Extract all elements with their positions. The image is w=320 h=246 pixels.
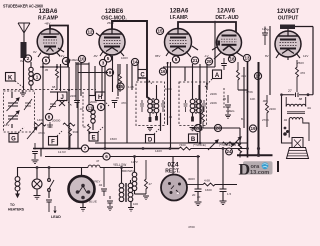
svg-text:20: 20 [192,193,196,197]
pin 14 [131,58,138,65]
capacitor C 04 buffer [98,168,107,197]
svg-text:250V: 250V [107,21,114,25]
svg-text:12V6GT: 12V6GT [277,9,300,15]
ground IF T1 [147,128,153,131]
svg-text:-1V: -1V [204,54,209,58]
svg-text:IK: IK [83,125,86,129]
svg-text:1.5: 1.5 [227,192,232,196]
dial lamp PL [32,168,42,200]
pin 19 [249,125,256,132]
wire vertical x207 [206,64,208,90]
svg-text:12.6V: 12.6V [58,150,66,154]
label V1 12BA6 R.F.AMP [38,9,59,22]
svg-text:12BE6: 12BE6 [105,9,124,15]
wire y128 det [192,127,240,129]
svg-text:D: D [239,162,251,179]
pin 9 [97,103,104,110]
junction [104,71,106,73]
junction [104,147,107,150]
svg-text:220K: 220K [210,101,217,105]
svg-text:456KC: 456KC [138,76,148,80]
svg-text:14: 14 [132,60,138,65]
svg-text:95V: 95V [155,54,160,58]
svg-text:.05: .05 [222,97,227,101]
svg-text:12V: 12V [303,54,308,58]
trimmer C2 [24,99,32,110]
watermark logo [239,161,273,178]
svg-text:-48V: -48V [44,22,50,26]
svg-text:10: 10 [79,57,85,62]
antenna loopstick coil [21,42,27,90]
capacitor C x114.5 [112,101,118,109]
svg-text:100V: 100V [121,56,128,60]
svg-text:2200: 2200 [70,94,77,98]
resistor R x203 det load [202,106,205,128]
svg-text:.02: .02 [168,115,173,119]
tube V3 12BA6 envelope [165,29,192,56]
label V4 12AV6 DET-AUD [215,9,239,22]
tube V5 pin stubs [276,53,300,60]
wire vertical x127 [126,64,128,143]
svg-text:13.com: 13.com [250,170,269,176]
antenna [18,23,30,42]
junction [222,147,225,150]
wire V2 plate to IF1 [112,21,150,99]
wire vertical x120 [119,64,121,74]
svg-text:8: 8 [48,115,51,120]
wire vertical x118 [117,64,119,96]
svg-text:12AV6: 12AV6 [217,9,236,15]
resistor R x280 [266,95,277,127]
capacitor and ground x228 [222,95,231,118]
oscillator trimmer caps [47,100,57,128]
svg-text:H: H [98,95,102,101]
resistor R 470 x297 [296,60,306,92]
capacitor C 34 [107,196,113,211]
wire vertical x69 [68,67,70,149]
switch SW on-off [48,168,54,199]
wire 0Z4 output y183 [187,184,203,186]
resistor R 7400 on bus [179,143,248,150]
wire vertical x270 [269,26,271,95]
test point box H [96,92,110,106]
resistor R y124.5 [63,123,75,126]
svg-text:40: 40 [197,195,201,199]
svg-text:470K: 470K [38,131,45,135]
volume pot det arrow [208,140,234,150]
svg-text:.01: .01 [79,107,84,111]
svg-text:15: 15 [118,84,124,89]
variable capacitor C1A [7,98,20,111]
junction [68,147,71,150]
wire vertical x81 [80,63,82,97]
junction X mark [59,100,65,106]
test point box J [58,92,73,106]
resistor R x57 [56,69,59,90]
junction [36,166,39,169]
svg-text:12V: 12V [59,54,64,58]
pin 5 V2 [104,55,111,62]
svg-text:1MEG: 1MEG [226,109,235,113]
svg-text:10K: 10K [250,97,255,101]
svg-text:20000: 20000 [52,119,61,123]
wire vertical x60 to J [60,64,62,91]
pin 15b [117,83,124,90]
capacitor C y151 x35 with ground [32,143,39,164]
IF T1 trim caps [140,100,165,112]
svg-text:TO: TO [10,203,15,207]
resistor R x120 [119,74,122,92]
volume control R-VOL [27,119,61,140]
svg-text:2: 2 [27,56,30,61]
IF T2 primary coil [190,64,195,122]
svg-text:19: 19 [250,126,256,131]
svg-text:E: E [91,136,95,142]
IF T2 trim caps [184,100,207,112]
wire transformer feed [282,95,293,143]
wire vertical x76 [75,62,77,100]
junction [284,127,287,130]
tube V4 pin stubs [212,47,243,59]
svg-text:1: 1 [36,75,39,80]
svg-text:20: 20 [206,59,212,64]
power transformer T-PWR [119,168,133,203]
coil L heater choke bump [88,165,100,167]
dashed gang link 2 [82,92,84,128]
wire horizontal y67 left [40,66,69,68]
svg-text:.05: .05 [232,143,237,147]
svg-text:YELLOW: YELLOW [113,163,126,167]
pin 20 [205,58,212,65]
label 0Z4 RECT [165,162,180,175]
wire 0Z4 anode feed [172,157,174,176]
svg-text:100K: 100K [165,87,172,91]
wire vertical x200 [199,64,201,143]
svg-text:390: 390 [73,130,78,134]
junction [169,147,172,150]
svg-text:16: 16 [160,69,166,74]
wire vertical x43 [42,63,44,149]
svg-text:0V: 0V [33,50,37,54]
svg-text:-18V: -18V [3,123,9,127]
svg-text:220K: 220K [210,92,217,96]
dashed gang line [3,89,96,91]
pin 12 [86,28,93,35]
dashed AVC line x224 [223,88,225,108]
test point box A [204,70,222,88]
svg-text:250V: 250V [297,61,304,65]
test point box G [9,127,24,143]
pin 22 [194,124,201,131]
svg-text:F: F [51,140,55,146]
svg-text:13: 13 [244,56,250,61]
pin 1 [33,73,40,80]
choke L filter [132,157,137,195]
wire gang to ground [11,92,13,128]
test point box C [138,70,152,85]
wire vertical x170 [170,62,172,149]
pin 21 [191,57,198,64]
svg-text:.88: .88 [298,97,303,101]
wire horizontal y95.5 H [89,95,95,97]
svg-text:12BA6: 12BA6 [39,9,58,15]
test point box D [146,128,161,144]
svg-text:LEAD: LEAD [51,215,61,219]
capacitor C x77 [74,101,80,109]
test point box K [6,73,25,89]
svg-text:12BA6: 12BA6 [170,9,189,15]
wire vertical x57 [56,64,58,69]
capacitor C x224 [221,58,227,70]
svg-text:-8V: -8V [93,54,98,58]
svg-text:I.F.AMP.: I.F.AMP. [170,15,189,21]
resistor R 1600 [203,179,237,193]
svg-text:1.05: 1.05 [128,85,134,89]
tube V2 pin stubs [96,33,124,58]
tube V3 pin stubs [166,46,198,58]
wire right edge vertical [312,27,314,95]
svg-text:47: 47 [96,159,100,163]
ground transformer [128,202,134,211]
pin 13 [243,54,250,61]
coil heater dropper TO HEATERS [15,168,20,198]
svg-text:27: 27 [288,89,292,93]
label plate cap V5 [280,25,313,32]
svg-text:J: J [61,95,64,101]
svg-text:9: 9 [109,70,112,75]
svg-text:A: A [215,73,220,79]
svg-text:270K: 270K [262,118,269,122]
pin 10 [78,55,85,62]
wire horizontal y90 right [238,89,248,91]
svg-text:DET.-AUD: DET.-AUD [215,15,239,21]
pin 15 [156,27,163,34]
svg-text:.02: .02 [283,118,288,122]
wire vertical x244 [243,67,245,128]
svg-text:3: 3 [102,61,105,66]
svg-text:470K: 470K [246,90,253,94]
IF T2 secondary coil [197,85,202,124]
variable capacitor C1B [7,111,20,124]
pin 9b [106,69,113,76]
svg-text:47: 47 [166,61,170,65]
svg-text:4700: 4700 [188,225,195,229]
tube V4 12AV6 envelope [217,30,242,55]
filter capacitor C+ x192 [192,157,202,206]
pin 23 [214,124,221,131]
svg-text:1MEG: 1MEG [70,58,79,62]
wire vertical x78 [77,62,79,149]
svg-text:7400: 7400 [179,143,186,147]
svg-text:12V: 12V [262,27,267,31]
svg-text:4: 4 [65,59,68,64]
wire vertical x247 thick [247,61,249,158]
svg-text:7: 7 [84,146,87,151]
svg-text:6: 6 [105,154,108,159]
wire V3 plate top bend to V4 [178,22,236,33]
pin 7 [81,145,88,152]
svg-text:B+: B+ [241,117,245,121]
ground antenna coil [20,90,26,97]
wire vertical x105 [104,66,106,149]
tuning gang dashed box [4,91,35,132]
junction [68,89,70,91]
svg-text:1600: 1600 [205,188,212,192]
resistor R x89 [88,124,91,141]
vibrator socket [69,168,95,203]
junction [199,142,202,145]
junction [42,66,44,68]
svg-text:(*TWICE): (*TWICE) [219,143,232,147]
svg-text:5: 5 [107,56,110,61]
tone pot arrow [229,137,241,147]
svg-text:12: 12 [87,30,93,35]
pin 17 [254,72,261,79]
junction [246,147,249,150]
svg-text:0Z4: 0Z4 [167,162,178,169]
junction [120,166,123,169]
svg-text:G: G [11,137,16,143]
pin 24 [226,148,233,155]
svg-text:21: 21 [192,58,198,63]
wire vertical x89 [88,63,90,105]
test point box F [49,130,64,146]
IF T2 core [195,98,196,114]
svg-text:117V: 117V [131,160,138,164]
svg-text:8V: 8V [265,54,269,58]
svg-text:5: 5 [175,57,178,62]
wire horizontal y67 mid [163,66,215,68]
test point box B [189,129,204,143]
svg-text:471: 471 [241,74,246,78]
heater bus y167.5 [17,167,133,169]
ground choke [135,194,150,200]
svg-text:18: 18 [229,57,235,62]
junction [214,21,217,24]
resistor R 471 x238 [237,62,247,90]
wire vertical x185 feed [184,67,186,81]
capacitor C lead [46,200,61,219]
wire vertical x215 [214,22,216,67]
svg-text:47: 47 [149,182,153,186]
bus wire y148.5 [33,148,179,150]
label V5 12V6GT OUTPUT [277,9,300,22]
wire vertical x132 [131,64,133,90]
wire horizontal y64 [76,63,89,65]
svg-text:BROWN: BROWN [122,169,134,173]
wire speaker leads [283,130,289,136]
svg-text:300V: 300V [188,177,195,181]
pin 3 [99,59,106,66]
ground vibrator [80,203,86,211]
junction [56,66,58,68]
IF T1 core [153,98,154,114]
tube V1 pin stubs [38,48,64,58]
svg-text:15: 15 [157,29,163,34]
coil L1 RF secondary [29,62,33,90]
pin 5 V3 [172,56,179,63]
svg-text:2000: 2000 [90,100,97,104]
net label TO HEATERS [8,203,25,212]
label V3 12BA6 I.F.AMP [170,9,189,22]
wire vertical x240 det out [239,128,242,158]
ground IF T2 [190,128,196,131]
svg-text:K: K [8,76,13,82]
junction [133,155,136,158]
wire vertical x95 [94,66,96,95]
pin 16 [159,68,166,75]
svg-text:9: 9 [100,105,103,110]
wire vertical x167.5 [167,62,169,125]
junction [257,147,260,150]
pin 18 [228,55,235,62]
IF transformer T2 dashed can [179,82,207,126]
svg-text:150V: 150V [110,137,117,141]
svg-text:140V: 140V [155,149,162,153]
tube V5 12V6GT envelope [275,31,301,57]
pin 5 V1 [42,57,49,64]
bus wire y143 [95,142,248,144]
coil L2 oscillator [91,105,95,130]
IF transformer T1 dashed can [136,82,165,126]
junction [48,166,51,169]
svg-text:HEATERS: HEATERS [8,208,25,212]
junction [197,155,200,158]
test point box E [89,126,104,142]
wire vertical x138 [137,62,139,81]
svg-text:0V: 0V [20,59,24,63]
wire horizontal y92 J [50,91,57,93]
svg-text:470: 470 [300,71,305,75]
filter capacitor C+ x223 [220,149,232,205]
svg-text:.04: .04 [98,183,103,187]
wire horizontal y72.5 [78,72,108,74]
svg-text:RECT.: RECT. [165,169,180,175]
svg-text:.05: .05 [44,68,49,72]
svg-text:1400: 1400 [37,118,44,122]
IF T1 secondary coil [154,85,160,131]
svg-text:BLUE: BLUE [89,200,97,204]
pin 6 [103,153,110,160]
svg-text:STUDEBAKER AC-2960: STUDEBAKER AC-2960 [3,4,43,10]
svg-text:47K: 47K [121,101,126,105]
wire vertical x112.5 [112,56,114,92]
tube V2 12BE6 envelope [99,29,125,55]
wire vertical x102 [101,66,103,96]
tube V6 0Z4 socket [161,175,187,201]
svg-text:5: 5 [45,58,48,63]
capacitor C x265 grid [262,27,271,46]
svg-text:ora: ora [251,164,261,170]
svg-text:2200: 2200 [269,107,276,111]
label V2 12BE6 OSC-MOD [101,9,127,22]
pin 8 [45,113,52,120]
svg-text:4.68: 4.68 [204,179,210,183]
IF T1 primary coil [148,99,153,122]
svg-text:OUTPUT: OUTPUT [278,16,299,22]
resistor R 47 vertical x146 [145,160,153,194]
svg-text:24: 24 [226,149,232,154]
svg-text:.005: .005 [262,99,268,103]
wire bus junction x41 [40,149,42,157]
output transformer T-OUT [282,89,314,120]
speaker SPK [287,120,310,159]
svg-text:.05: .05 [115,96,120,100]
junction [142,147,145,150]
tube V1 12BA6 envelope [37,29,63,55]
svg-text:100: 100 [133,202,138,206]
pin 11 [86,104,93,111]
